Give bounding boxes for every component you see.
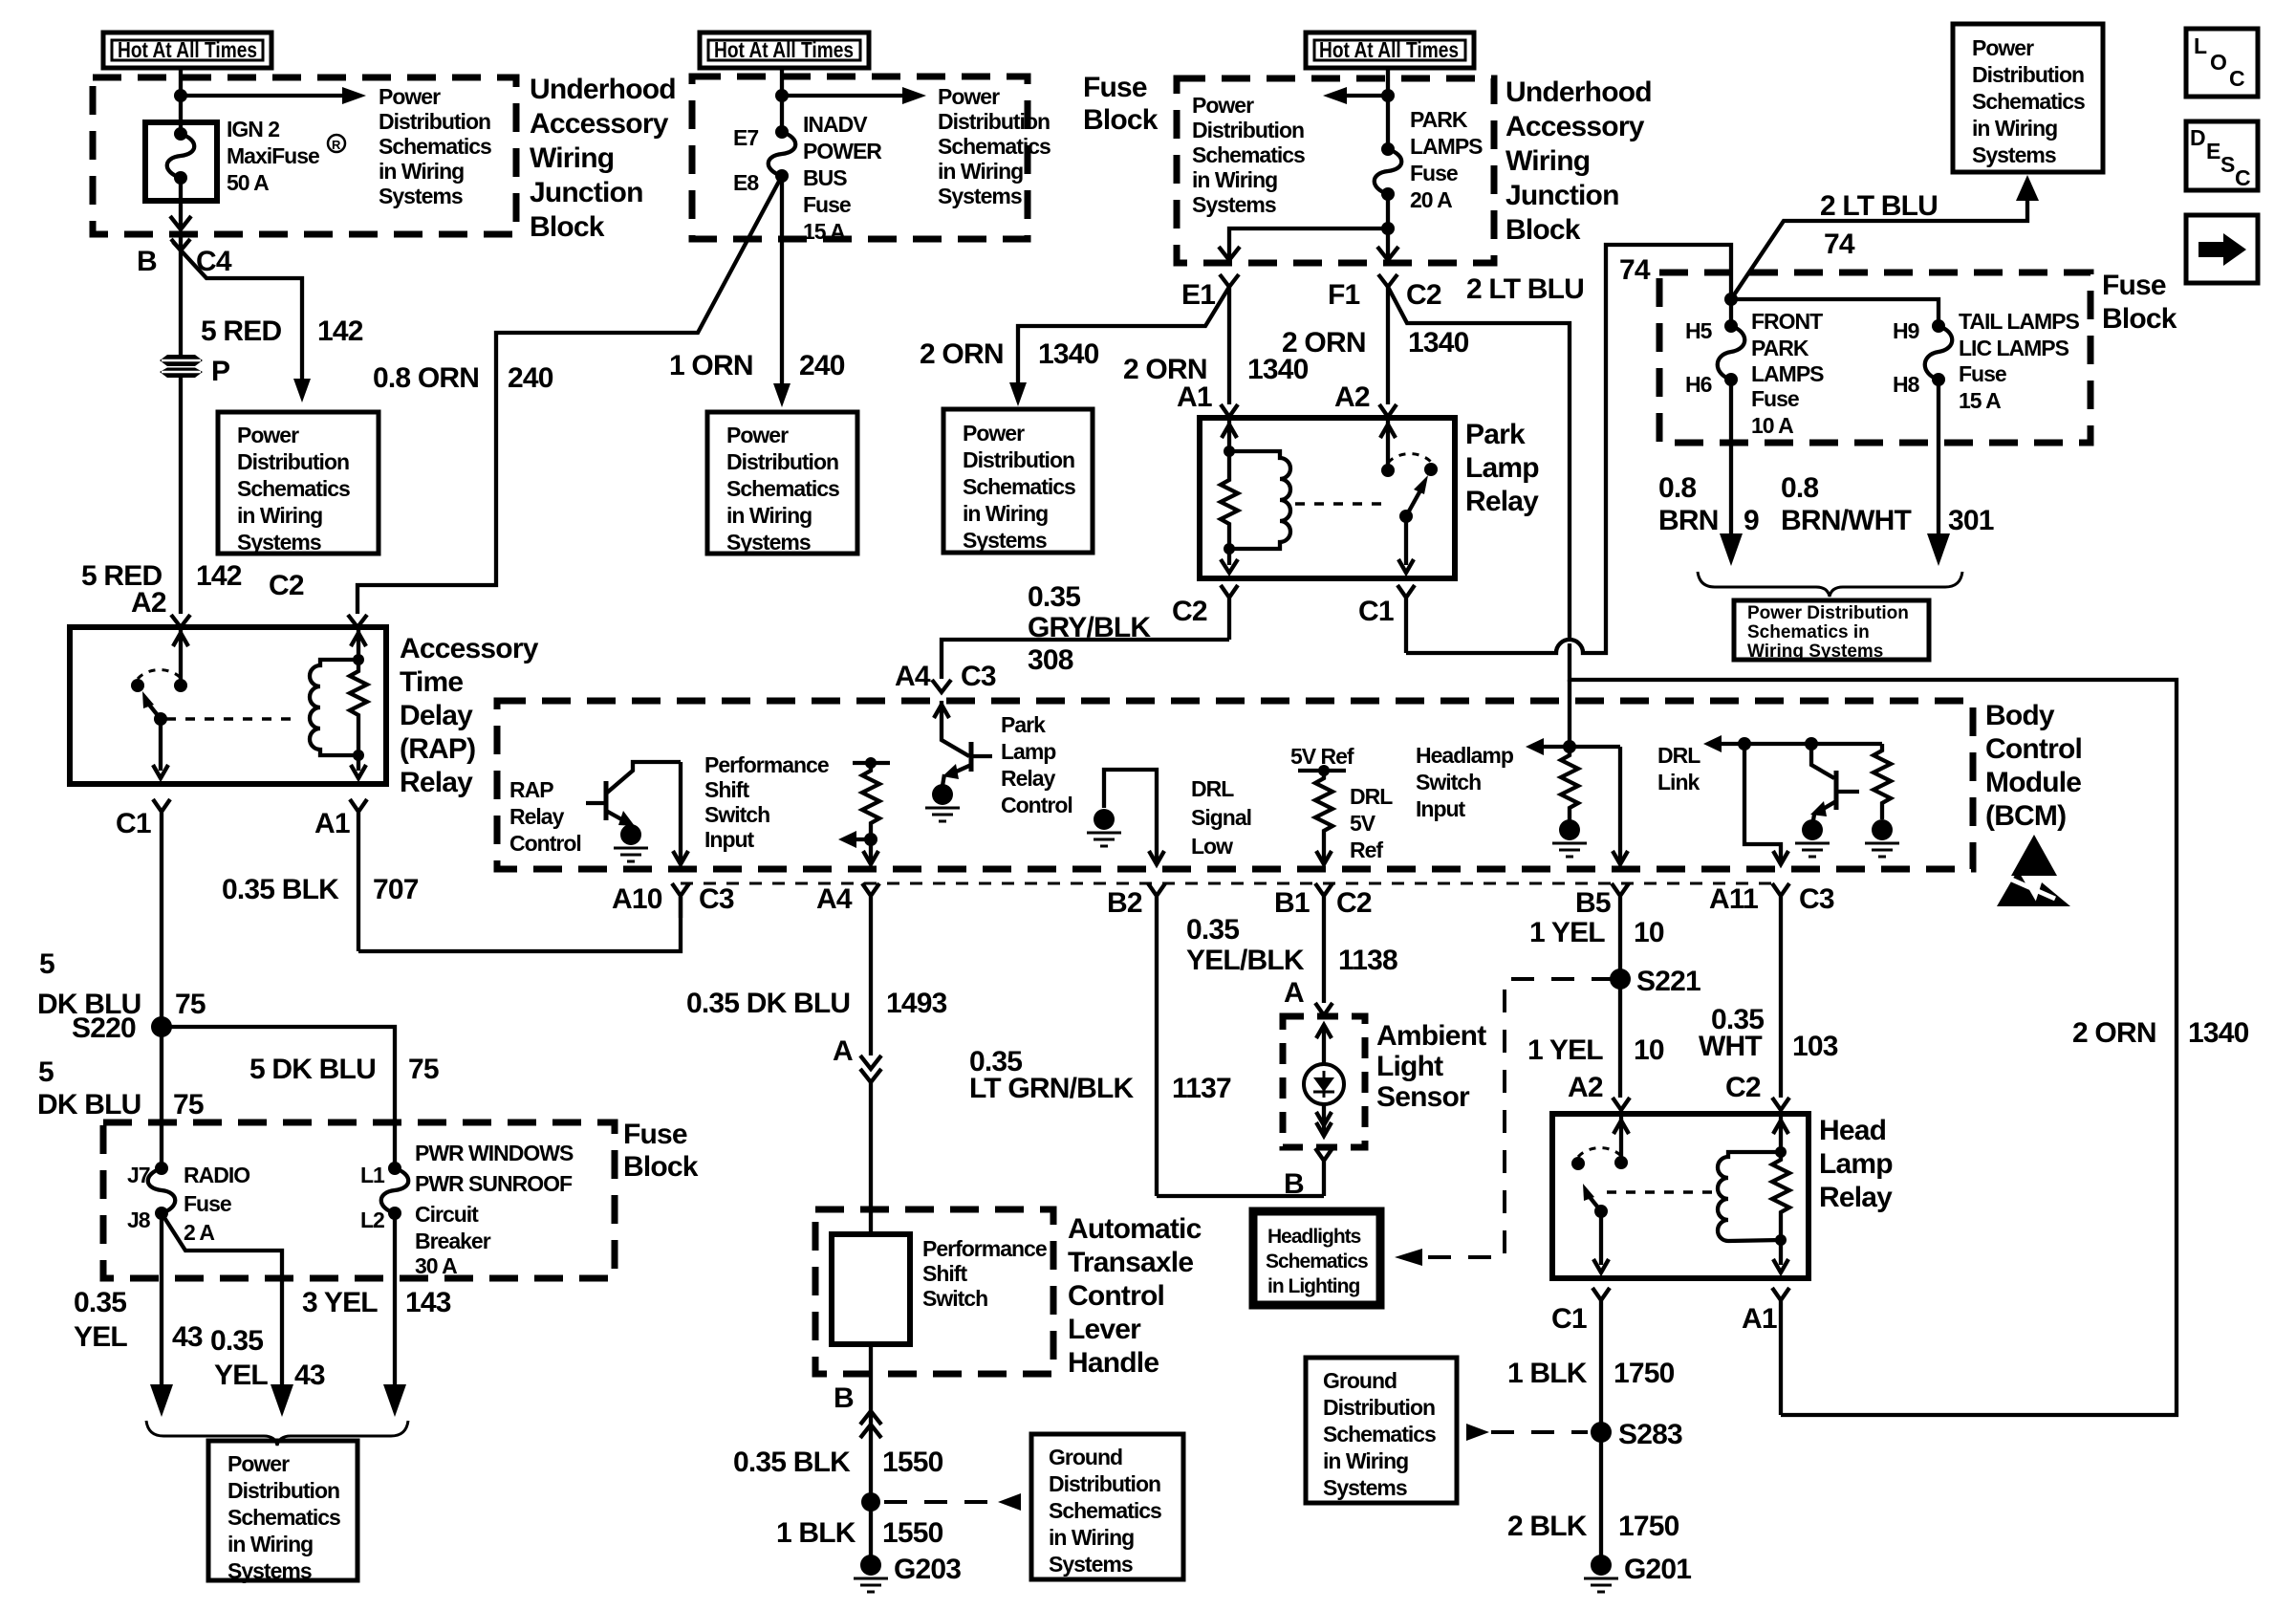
svg-text:2 A: 2 A — [184, 1220, 214, 1245]
svg-text:1750: 1750 — [1618, 1511, 1679, 1542]
svg-text:YEL: YEL — [214, 1360, 268, 1391]
ref box D: Power Distribution Schematics in Wiring Systems (top right) — [1953, 24, 2103, 172]
switch S1: Performance Shift Switch box — [832, 1234, 910, 1344]
svg-text:LAMPS: LAMPS — [1410, 134, 1483, 159]
label: 1 YEL 10 (above S221) — [1529, 917, 1664, 948]
svg-text:Headlights: Headlights — [1267, 1226, 1361, 1248]
svg-text:Power: Power — [726, 423, 789, 447]
svg-text:WHT: WHT — [1699, 1031, 1762, 1062]
svg-text:Light: Light — [1376, 1051, 1443, 1082]
svg-text:Block: Block — [2102, 303, 2177, 335]
svg-text:L2: L2 — [360, 1207, 384, 1232]
connector A1 V below RAP relay — [314, 799, 367, 951]
svg-text:Distribution: Distribution — [1192, 118, 1304, 142]
dashed box: Ambient Light Sensor — [1283, 1016, 1365, 1147]
label: Park Lamp Relay Control — [1001, 712, 1072, 817]
svg-text:LAMPS: LAMPS — [1751, 361, 1824, 386]
node S220 splice — [72, 1012, 172, 1044]
label: 1 BLK 1750 — [1507, 1358, 1675, 1389]
svg-text:S220: S220 — [72, 1012, 136, 1044]
svg-text:10: 10 — [1634, 1034, 1664, 1066]
svg-text:2 LT BLU: 2 LT BLU — [1820, 190, 1938, 222]
RAP relay internals: coil+resistor right — [310, 627, 367, 778]
svg-text:B: B — [137, 246, 157, 277]
label: Headlamp Switch Input — [1416, 743, 1514, 821]
svg-text:1 ORN: 1 ORN — [669, 350, 753, 381]
svg-text:Schematics: Schematics — [963, 474, 1075, 499]
svg-text:E8: E8 — [733, 170, 759, 195]
svg-text:Lever: Lever — [1068, 1314, 1141, 1345]
svg-text:Schematics: Schematics — [1972, 89, 2085, 114]
svg-text:in Wiring: in Wiring — [963, 501, 1048, 526]
svg-text:0.8: 0.8 — [1781, 472, 1818, 504]
svg-text:20 A: 20 A — [1410, 187, 1452, 212]
fuse F7: TAIL LAMPS LIC LAMPS Fuse 15 A — [1893, 309, 2080, 413]
ref box C — [943, 409, 1093, 553]
dashed box: fuse block (INADV) — [692, 76, 1028, 239]
svg-text:Distribution: Distribution — [1323, 1395, 1435, 1420]
svg-text:240: 240 — [799, 350, 845, 381]
svg-text:Power: Power — [963, 421, 1025, 446]
wire: F1 down to park lamp relay A2 — [1386, 287, 1390, 404]
svg-text:BRN: BRN — [1658, 505, 1719, 536]
svg-text:PARK: PARK — [1410, 107, 1468, 132]
svg-text:S221: S221 — [1636, 966, 1700, 997]
svg-text:Power Distribution: Power Distribution — [1747, 603, 1909, 623]
node S221 splice — [1610, 966, 1700, 997]
svg-text:Distribution: Distribution — [227, 1478, 339, 1503]
BCM transistor Q2: Park Lamp Relay Control — [925, 701, 992, 821]
svg-text:H5: H5 — [1685, 318, 1713, 343]
label: 0.35 GRY/BLK 308 — [1028, 581, 1151, 676]
dashed actuation link in RAP relay — [166, 717, 294, 721]
svg-text:C1: C1 — [1551, 1303, 1587, 1335]
label: Accessory Time Delay (RAP) Relay — [400, 633, 539, 798]
connector A4 below BCM (to shift switch) — [816, 883, 879, 1055]
svg-text:1137: 1137 — [1172, 1073, 1231, 1104]
wire: sensor B to BCM B2 — [1157, 1194, 1324, 1198]
svg-text:1493: 1493 — [886, 988, 947, 1019]
node: junction dot at top of IGN2 fuse — [174, 89, 187, 102]
connector A2 V at head lamp relay — [1613, 1098, 1630, 1110]
svg-text:Control: Control — [1001, 793, 1072, 817]
svg-text:C2: C2 — [1172, 596, 1207, 627]
svg-text:Lamp: Lamp — [1465, 452, 1539, 484]
wire: L2 down 3 YEL 143 — [393, 1213, 397, 1388]
wire: park relay C1 to fuses (2 LT BLU 74) with hop over 1340 wire — [1406, 245, 1731, 653]
svg-text:Automatic: Automatic — [1068, 1213, 1202, 1245]
label: Power Distribution Schematics in Wiring Systems (text ref 1) — [379, 84, 491, 208]
fuse F2: INADV POWER BUS 15A — [733, 112, 882, 244]
connector A2 V at park lamp relay — [1379, 404, 1397, 417]
fuse F4: RADIO Fuse 2A — [127, 1162, 249, 1245]
label: 0.8 BRN/WHT 301 — [1781, 472, 1994, 536]
label: 0.35 DK BLU 1493 — [686, 988, 947, 1019]
svg-text:Block: Block — [1505, 214, 1581, 246]
ref box E: Power Distribution Schematics in Wiring Systems (3 line) — [1734, 600, 1929, 662]
dashed ref wire from S221 to headlights box — [1395, 979, 1614, 1266]
svg-text:Park: Park — [1465, 419, 1526, 450]
svg-text:0.35: 0.35 — [1186, 914, 1239, 946]
svg-text:Control: Control — [509, 831, 581, 856]
svg-text:Systems: Systems — [726, 530, 811, 555]
svg-text:0.35: 0.35 — [1028, 581, 1080, 613]
svg-text:74: 74 — [1824, 228, 1855, 260]
svg-text:74: 74 — [1619, 254, 1651, 286]
fuse F5: PWR WINDOWS PWR SUNROOF Circuit Breaker 30A — [360, 1141, 574, 1278]
svg-text:Schematics: Schematics — [237, 476, 350, 501]
svg-text:C3: C3 — [699, 883, 734, 915]
svg-text:Performance: Performance — [922, 1236, 1047, 1261]
BCM resistor R2: DRL 5V Ref — [1290, 744, 1393, 864]
svg-text:Shift: Shift — [704, 777, 749, 802]
svg-text:A: A — [833, 1035, 853, 1067]
wire: shift switch B down — [869, 1344, 873, 1502]
svg-text:Control: Control — [1985, 733, 2082, 765]
svg-text:0.35 BLK: 0.35 BLK — [733, 1447, 851, 1478]
svg-text:Systems: Systems — [1323, 1475, 1407, 1500]
node S283 splice with dashed ref — [1466, 1419, 1682, 1450]
connector A4/C3 at BCM top — [895, 661, 996, 692]
svg-text:O: O — [2210, 50, 2226, 75]
svg-text:A11: A11 — [1709, 883, 1758, 915]
connector E1 — [1181, 274, 1239, 311]
svg-text:0.8 ORN: 0.8 ORN — [373, 362, 479, 394]
wire: 0.35 GRY/BLK 308 from C2 to BCM A4/C3 — [942, 640, 1229, 679]
svg-text:C3: C3 — [1799, 883, 1834, 915]
label: 0.35 YEL/BLK 1138 — [1186, 914, 1397, 976]
ref box A: Power Distribution Schematics in Wiring Systems — [218, 412, 379, 555]
svg-text:5 RED: 5 RED — [201, 315, 281, 347]
svg-text:C2: C2 — [269, 570, 304, 601]
svg-text:DRL: DRL — [1191, 776, 1234, 801]
svg-text:A2: A2 — [131, 587, 166, 619]
svg-text:2 ORN: 2 ORN — [2072, 1017, 2156, 1049]
svg-text:Block: Block — [623, 1151, 699, 1183]
park lamp relay internals: switch right — [1380, 418, 1438, 573]
fuse F1: IGN 2 MaxiFuse 50A box — [145, 122, 217, 201]
svg-text:PWR WINDOWS: PWR WINDOWS — [415, 1141, 574, 1165]
svg-text:Schematics: Schematics — [379, 134, 491, 159]
svg-text:YEL/BLK: YEL/BLK — [1186, 945, 1305, 976]
label: Performance Shift Switch Input — [704, 752, 829, 852]
svg-text:Ground: Ground — [1323, 1368, 1397, 1393]
svg-text:Fuse: Fuse — [803, 192, 851, 217]
svg-text:Distribution: Distribution — [1972, 62, 2084, 87]
svg-text:75: 75 — [175, 989, 206, 1020]
svg-text:43: 43 — [172, 1321, 203, 1353]
relay K3: Head Lamp Relay box — [1552, 1114, 1809, 1278]
svg-text:1 YEL: 1 YEL — [1527, 1034, 1603, 1066]
wire: arrow right to Power Dist text 2 — [782, 94, 906, 98]
svg-text:Systems: Systems — [237, 530, 321, 555]
svg-text:in Lighting: in Lighting — [1267, 1275, 1359, 1297]
svg-text:Power: Power — [227, 1451, 290, 1476]
svg-text:C: C — [2235, 165, 2250, 190]
svg-text:30 A: 30 A — [415, 1253, 457, 1278]
svg-text:G203: G203 — [894, 1554, 961, 1585]
label: 0.35 BLK 707 — [222, 874, 419, 905]
head lamp relay internals: switch left — [1571, 1114, 1629, 1273]
svg-text:Relay: Relay — [1001, 766, 1056, 791]
svg-text:Fuse: Fuse — [1751, 386, 1799, 411]
wire: 5 RED continues down to RAP relay A2 — [179, 378, 183, 614]
svg-text:Junction: Junction — [530, 177, 643, 208]
label: 0.35 YEL 43 (left) — [74, 1287, 203, 1353]
connector B/C4 on wire — [137, 234, 232, 277]
wire: 1340 into BCM headlamp node — [1568, 680, 1571, 747]
svg-text:Body: Body — [1985, 700, 2055, 731]
BCM connector row dotted line — [681, 882, 1781, 885]
svg-text:3 YEL: 3 YEL — [302, 1287, 378, 1318]
grommet P — [160, 355, 229, 387]
svg-text:DRL: DRL — [1350, 784, 1393, 809]
connector A10/C3 below BCM — [612, 883, 734, 918]
svg-text:C2: C2 — [1725, 1072, 1761, 1103]
svg-text:Fuse: Fuse — [623, 1119, 687, 1150]
svg-text:in Wiring: in Wiring — [938, 159, 1023, 184]
relay K2: Accessory Time Delay (RAP) Relay box — [70, 627, 386, 784]
wire: 0.8 BRN/WHT 301 down arrow — [1937, 380, 1940, 537]
svg-text:Relay: Relay — [400, 767, 473, 798]
svg-text:Schematics: Schematics — [1323, 1422, 1436, 1447]
curly brace under left arrows — [146, 1421, 408, 1446]
connector A1 V below head lamp relay — [1742, 1288, 1789, 1415]
svg-text:2 BLK: 2 BLK — [1507, 1511, 1588, 1542]
svg-text:1550: 1550 — [882, 1447, 943, 1478]
svg-text:2 ORN: 2 ORN — [920, 338, 1004, 370]
svg-text:YEL: YEL — [74, 1321, 127, 1353]
svg-text:Systems: Systems — [1192, 192, 1276, 217]
svg-text:Fuse: Fuse — [1083, 72, 1147, 103]
label: 3 YEL 143 — [302, 1287, 451, 1318]
svg-text:C2: C2 — [1406, 279, 1441, 311]
relay K1: Park Lamp Relay box — [1200, 418, 1455, 578]
svg-text:Wiring: Wiring — [1505, 145, 1590, 177]
svg-text:Lamp: Lamp — [1819, 1148, 1893, 1180]
svg-text:Input: Input — [704, 827, 755, 852]
svg-text:240: 240 — [508, 362, 553, 394]
svg-text:J8: J8 — [127, 1207, 151, 1232]
svg-text:75: 75 — [408, 1054, 439, 1085]
svg-text:Systems: Systems — [227, 1558, 312, 1583]
svg-text:2 ORN: 2 ORN — [1282, 327, 1366, 359]
open arrows at dashed box 3 bottom — [1219, 247, 1240, 260]
svg-text:H8: H8 — [1893, 372, 1920, 397]
label: 5 DK BLU 75 (branch) — [249, 1054, 439, 1085]
svg-text:0.35: 0.35 — [210, 1325, 263, 1357]
connector C1 V below park lamp relay — [1358, 585, 1415, 653]
svg-text:Power: Power — [1972, 35, 2034, 60]
svg-text:10 A: 10 A — [1751, 413, 1793, 438]
wire: 2 LT BLU 74 up to ref box D — [1731, 198, 2027, 299]
wire: RAP control collector down to A10 with arrow — [679, 762, 682, 861]
ground G201 — [1584, 1554, 1691, 1592]
wire: 1 ORN 240 down to ref box B — [780, 176, 784, 387]
svg-text:Block: Block — [1083, 104, 1159, 136]
dashed box: fuse block (top right) — [1659, 272, 2090, 443]
svg-text:Sensor: Sensor — [1376, 1081, 1470, 1113]
wire: 1340 net from F1/C2 via BCM to far right — [1388, 287, 2177, 1415]
svg-text:E7: E7 — [733, 125, 758, 150]
svg-text:B: B — [834, 1382, 854, 1414]
RAP relay internals: switch left — [131, 627, 188, 778]
svg-text:Accessory: Accessory — [400, 633, 539, 664]
svg-text:Accessory: Accessory — [530, 108, 669, 140]
svg-text:Relay: Relay — [1819, 1182, 1893, 1213]
svg-text:Transaxle: Transaxle — [1068, 1247, 1193, 1278]
svg-text:(RAP): (RAP) — [400, 733, 475, 765]
dashed actuation link in park lamp relay — [1295, 502, 1388, 506]
node: splice to ground ref — [861, 1492, 880, 1512]
dashed box: Body Control Module (BCM) — [497, 701, 1973, 869]
svg-text:Power: Power — [237, 423, 299, 447]
label: 0.8 BRN 9 — [1658, 472, 1759, 536]
wire: arrow left from park lamps feed — [1343, 94, 1388, 98]
svg-text:Control: Control — [1068, 1280, 1164, 1312]
svg-text:Systems: Systems — [1049, 1552, 1133, 1577]
svg-text:GRY/BLK: GRY/BLK — [1028, 612, 1151, 643]
svg-text:Park: Park — [1001, 712, 1046, 737]
svg-text:Power: Power — [938, 84, 1000, 109]
BCM resistor R1: performance shift switch pull-up — [838, 757, 890, 864]
svg-text:RADIO: RADIO — [184, 1163, 249, 1187]
connector B2 below BCM — [1107, 883, 1165, 1196]
wire: fuse out, split to E1 and F1 — [1386, 194, 1390, 260]
svg-text:TAIL LAMPS: TAIL LAMPS — [1959, 309, 2080, 334]
svg-text:Time: Time — [400, 666, 463, 698]
ref box B — [707, 412, 857, 555]
svg-text:Junction: Junction — [1505, 180, 1619, 211]
label: DRL Link — [1657, 743, 1700, 794]
park lamp relay internals: coil+resistor left — [1221, 418, 1290, 573]
label: DRL Signal Low — [1191, 776, 1251, 859]
loc box — [2186, 29, 2258, 97]
svg-text:Power: Power — [1192, 93, 1254, 118]
svg-text:0.35 DK BLU: 0.35 DK BLU — [686, 988, 850, 1019]
svg-text:A1: A1 — [1742, 1303, 1777, 1335]
svg-text:142: 142 — [196, 560, 242, 592]
svg-text:C: C — [2229, 66, 2244, 91]
svg-text:LIC LAMPS: LIC LAMPS — [1959, 336, 2069, 360]
svg-text:P: P — [211, 356, 229, 387]
svg-text:H9: H9 — [1893, 318, 1919, 343]
svg-text:15 A: 15 A — [1959, 388, 2001, 413]
svg-text:Fuse: Fuse — [1410, 161, 1458, 185]
connector A of ambient light sensor — [1284, 977, 1332, 1015]
connector B5 below BCM — [1575, 883, 1629, 1098]
connector A11/C3 below BCM — [1709, 883, 1834, 1098]
label: Underhood Accessory Wiring Junction Block 1 — [530, 74, 676, 243]
svg-text:Systems: Systems — [379, 184, 463, 208]
svg-text:1340: 1340 — [1408, 327, 1469, 359]
svg-text:43: 43 — [294, 1360, 325, 1391]
svg-text:in Wiring: in Wiring — [237, 503, 322, 528]
wire: 0.8 BRN 9 down arrow — [1729, 380, 1733, 537]
connector A of shift switch (double chevron) — [833, 1035, 881, 1082]
curly brace under lamp feed arrows — [1698, 572, 1962, 597]
svg-text:142: 142 — [317, 315, 363, 347]
hot-at-all-times box 1 — [103, 33, 271, 68]
svg-text:Underhood: Underhood — [530, 74, 676, 105]
svg-text:A4: A4 — [895, 661, 931, 692]
label: Park Lamp Relay — [1465, 419, 1539, 517]
svg-text:IGN 2: IGN 2 — [227, 117, 279, 141]
svg-text:143: 143 — [405, 1287, 451, 1318]
svg-text:Shift: Shift — [922, 1261, 967, 1286]
label: 0.35 WHT 103 — [1699, 1004, 1838, 1103]
svg-text:B2: B2 — [1107, 887, 1142, 919]
svg-text:PWR SUNROOF: PWR SUNROOF — [415, 1171, 573, 1196]
ref box: Headlights Schematics in Lighting — [1253, 1211, 1380, 1305]
svg-text:Performance: Performance — [704, 752, 829, 777]
svg-text:Power: Power — [379, 84, 441, 109]
svg-text:1340: 1340 — [1038, 338, 1099, 370]
svg-text:Distribution: Distribution — [726, 449, 838, 474]
svg-text:Underhood: Underhood — [1505, 76, 1652, 108]
connector A1 V at park lamp relay — [1221, 404, 1238, 417]
svg-text:Distribution: Distribution — [379, 109, 490, 134]
svg-text:0.35: 0.35 — [74, 1287, 126, 1318]
connector B1/C2 below BCM — [1274, 883, 1372, 1003]
svg-text:Handle: Handle — [1068, 1347, 1159, 1379]
svg-text:Schematics: Schematics — [938, 134, 1051, 159]
svg-text:L1: L1 — [360, 1163, 385, 1187]
wire: 0.8 ORN 240 from E8 to RAP relay C2 — [357, 176, 782, 614]
svg-text:Schematics: Schematics — [227, 1505, 340, 1530]
ref box: Ground Distribution Schematics in Wiring Systems (center) — [1031, 1434, 1183, 1579]
label: Automatic Transaxle Control Lever Handle — [1068, 1213, 1202, 1379]
photodiode D1 inside sensor — [1304, 1025, 1344, 1136]
ground G203 — [854, 1554, 961, 1592]
svg-text:INADV: INADV — [803, 112, 868, 137]
svg-text:Accessory: Accessory — [1505, 111, 1645, 142]
svg-text:Distribution: Distribution — [963, 447, 1074, 472]
connector B of ambient light sensor — [1284, 1148, 1332, 1200]
svg-text:S283: S283 — [1618, 1419, 1682, 1450]
wire: 0.35 BLK 707 from RAP A1 to BCM A10 — [358, 897, 681, 951]
label: IGN 2 MaxiFuse 50 A — [227, 117, 345, 195]
svg-text:Relay: Relay — [509, 804, 565, 829]
svg-text:BRN/WHT: BRN/WHT — [1781, 505, 1912, 536]
wire: E1 down to park lamp relay A1 — [1227, 287, 1231, 404]
label: 0.35 BLK 1550 — [733, 1447, 943, 1478]
ref box: Power Distribution Schematics in Wiring Systems (bottom left) — [208, 1441, 357, 1583]
svg-text:Link: Link — [1657, 770, 1700, 794]
wire: branch right from S220 to L1 — [162, 1027, 395, 1168]
svg-text:C3: C3 — [961, 661, 996, 692]
connector: C2 V at RAP relay top — [348, 615, 367, 627]
svg-text:5: 5 — [38, 1056, 54, 1088]
svg-text:10: 10 — [1634, 917, 1664, 948]
label: 0.8 ORN 240 — [373, 362, 553, 394]
svg-text:A2: A2 — [1334, 381, 1370, 413]
svg-text:BUS: BUS — [803, 165, 847, 190]
hot-at-all-times box 3 — [1306, 33, 1474, 68]
label: Ambient Light Sensor — [1376, 1020, 1486, 1113]
svg-text:Ground: Ground — [1049, 1445, 1122, 1469]
svg-text:A2: A2 — [1568, 1072, 1603, 1103]
svg-text:1340: 1340 — [2188, 1017, 2249, 1049]
wire: down to performance shift switch — [869, 1082, 873, 1235]
svg-text:Delay: Delay — [400, 700, 473, 731]
svg-text:FRONT: FRONT — [1751, 309, 1823, 334]
svg-text:Module: Module — [1985, 767, 2081, 798]
svg-text:Circuit: Circuit — [415, 1202, 479, 1227]
svg-text:in Wiring: in Wiring — [1049, 1525, 1134, 1550]
svg-text:5 DK BLU: 5 DK BLU — [249, 1054, 376, 1085]
connector C2 V at head lamp relay — [1772, 1098, 1789, 1110]
